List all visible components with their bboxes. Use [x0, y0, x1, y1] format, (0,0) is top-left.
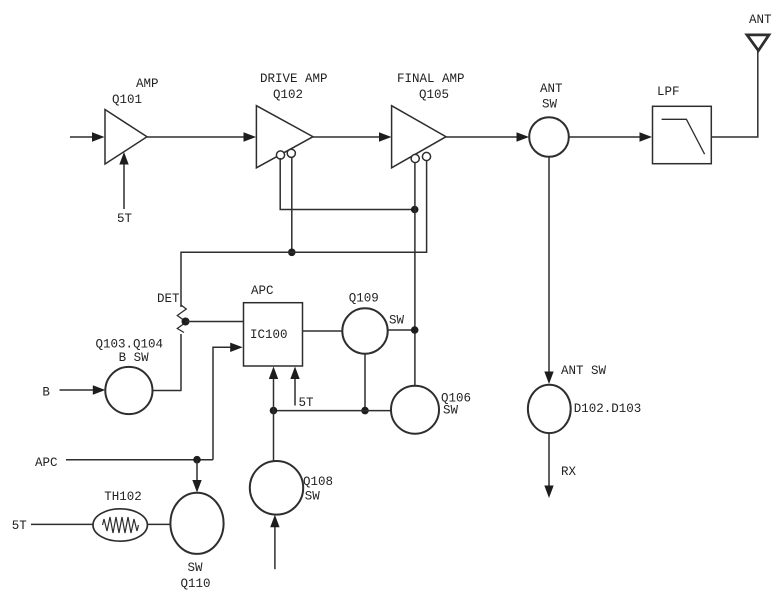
svg-text:IC100: IC100: [250, 328, 288, 342]
antenna ANT: [747, 35, 769, 51]
label AMP Q101: [112, 77, 159, 107]
svg-text:SW: SW: [443, 404, 459, 418]
svg-text:5T: 5T: [117, 212, 133, 226]
label Q106 SW: [441, 392, 471, 418]
svg-text:Q103.Q104: Q103.Q104: [96, 338, 164, 352]
label Q103.Q104 B SW: [96, 338, 164, 366]
op-amp APC controller IC100: [244, 303, 303, 366]
wire Q102 to Q105: [313, 132, 392, 141]
svg-text:ANT: ANT: [749, 13, 772, 27]
wire Q109 to bus: [388, 329, 414, 331]
svg-text:B: B: [42, 386, 50, 400]
wire Q102 emitter A to bus: [280, 158, 415, 210]
amplifier Q101: [105, 110, 147, 165]
filter LPF: [653, 106, 712, 163]
label Q108 SW: [303, 475, 333, 504]
svg-text:DET: DET: [157, 292, 180, 306]
wire bottom bus to Q106: [274, 410, 392, 412]
wire RX output: [544, 433, 553, 498]
transistor switch Q108: [250, 461, 303, 515]
wire Q109 bottom down: [364, 354, 366, 411]
svg-text:FINAL AMP: FINAL AMP: [397, 72, 465, 86]
transistor switch Q103.Q104 B SW: [105, 367, 152, 414]
wire IC100 to Q109: [303, 330, 343, 332]
wire APC input bus: [66, 459, 213, 461]
svg-text:SW: SW: [542, 98, 558, 112]
node junction at bus: [411, 206, 419, 214]
wire B to B SW: [60, 385, 106, 394]
label Q109 SW: [349, 292, 405, 328]
svg-text:Q108: Q108: [303, 475, 333, 489]
label DRIVE AMP Q102: [260, 72, 328, 102]
svg-text:D102.D103: D102.D103: [574, 402, 642, 416]
svg-text:Q102: Q102: [273, 88, 303, 102]
wire 5T into IC100: [290, 367, 299, 406]
wire bus up into IC100: [269, 367, 278, 411]
svg-text:AMP: AMP: [136, 77, 159, 91]
svg-text:5T: 5T: [299, 396, 315, 410]
detector DET coil: [177, 305, 186, 333]
antenna switch ANT SW: [529, 117, 569, 157]
svg-text:APC: APC: [251, 284, 274, 298]
wire 5T to TH102: [31, 523, 93, 525]
wire Q105 to ANT SW: [446, 132, 529, 141]
wire Q101 to Q102: [147, 132, 256, 141]
label SW Q110: [181, 561, 211, 591]
wire 5T bias to Q101: [119, 152, 128, 209]
label ANT SW: [540, 82, 563, 112]
svg-text:Q109: Q109: [349, 292, 379, 306]
node junction Q109 bottom: [361, 407, 369, 415]
wire Q105 emitter A down to Q106: [414, 162, 416, 386]
diode switch D102.D103: [528, 385, 571, 433]
wire ANT SW down to D102.D103: [544, 157, 553, 384]
node junction APC: [193, 456, 201, 464]
svg-text:B SW: B SW: [119, 351, 150, 365]
wire APC up into IC100: [213, 343, 243, 460]
wire DET to IC100: [186, 321, 244, 323]
wire Q105 emitter B to DET bus: [181, 160, 427, 307]
svg-text:ANT: ANT: [540, 82, 563, 96]
wire Q102 emitter B down: [291, 157, 293, 252]
amplifier Q102: [256, 106, 313, 168]
transistor switch Q109: [342, 308, 387, 353]
svg-text:5T: 5T: [12, 519, 28, 533]
wire LPF to antenna: [711, 51, 758, 137]
thermistor TH102: [93, 509, 147, 541]
wire input to Q101: [70, 132, 105, 141]
node junction Q102 emitter B: [288, 249, 296, 257]
node junction Q109 bus: [411, 326, 419, 334]
wire APC down to Q110: [192, 460, 201, 493]
node junction bottom bus: [270, 407, 278, 415]
svg-text:Q110: Q110: [181, 577, 211, 591]
wire bus down to Q108: [273, 411, 275, 462]
wire ANT SW to LPF: [569, 132, 652, 141]
wire DET down to B SW line: [180, 334, 182, 391]
node DET junction: [182, 318, 190, 326]
svg-text:SW: SW: [188, 561, 204, 575]
wire input up into Q108: [270, 515, 279, 569]
transistor switch Q106: [391, 386, 439, 434]
svg-text:ANT SW: ANT SW: [561, 364, 607, 378]
amplifier Q105: [392, 106, 446, 168]
svg-text:SW: SW: [389, 314, 405, 328]
wire TH102 to Q110: [147, 523, 170, 525]
svg-text:LPF: LPF: [657, 85, 680, 99]
svg-text:Q101: Q101: [112, 93, 142, 107]
wire B SW to DET line: [153, 390, 182, 392]
svg-text:DRIVE AMP: DRIVE AMP: [260, 72, 328, 86]
svg-text:APC: APC: [35, 456, 58, 470]
svg-text:RX: RX: [561, 465, 577, 479]
svg-text:Q105: Q105: [419, 88, 449, 102]
label FINAL AMP Q105: [397, 72, 465, 102]
label APC IC100: [250, 284, 288, 342]
svg-text:TH102: TH102: [104, 490, 142, 504]
transistor switch Q110: [170, 493, 223, 554]
svg-text:SW: SW: [305, 490, 321, 504]
